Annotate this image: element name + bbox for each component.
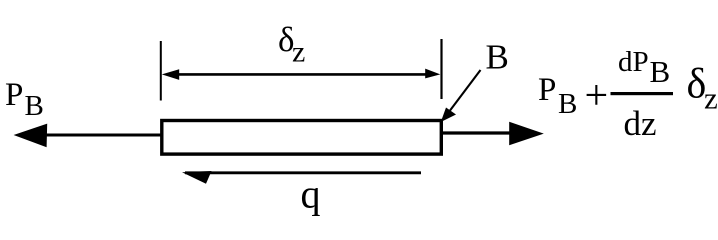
svg-text:B: B [650, 54, 671, 89]
label delta_z (right) [687, 62, 718, 116]
label P_B left [5, 77, 44, 122]
fraction bar [611, 92, 674, 95]
svg-text:z: z [292, 36, 305, 69]
label P_B right [538, 72, 577, 120]
bar element (rectangle) [162, 121, 442, 155]
svg-text:P: P [538, 72, 556, 108]
svg-text:+: + [585, 73, 609, 119]
svg-text:dP: dP [618, 46, 649, 78]
label delta_z (top) [278, 20, 305, 69]
label q [301, 172, 321, 217]
svg-text:z: z [704, 81, 718, 116]
svg-text:B: B [558, 88, 577, 120]
right extension line [440, 39, 442, 99]
svg-text:q: q [301, 172, 321, 217]
leader line from B to bar corner [441, 70, 481, 122]
fraction denominator dz [624, 104, 657, 143]
svg-text:dz: dz [624, 104, 657, 143]
plus sign [585, 73, 609, 119]
svg-text:B: B [486, 38, 509, 77]
svg-text:B: B [25, 90, 44, 122]
force arrow P_B (left, pointing left) [14, 124, 161, 148]
shear flow arrow q (pointing left) [182, 171, 421, 184]
left extension line [160, 41, 162, 101]
svg-text:P: P [5, 77, 23, 113]
label B (node name) [486, 38, 509, 77]
dimension line delta_z (double-headed) [162, 69, 441, 80]
force arrow P_B + dP_B/dz dz (right, pointing right) [441, 122, 544, 145]
fraction numerator dP_B [618, 46, 670, 89]
